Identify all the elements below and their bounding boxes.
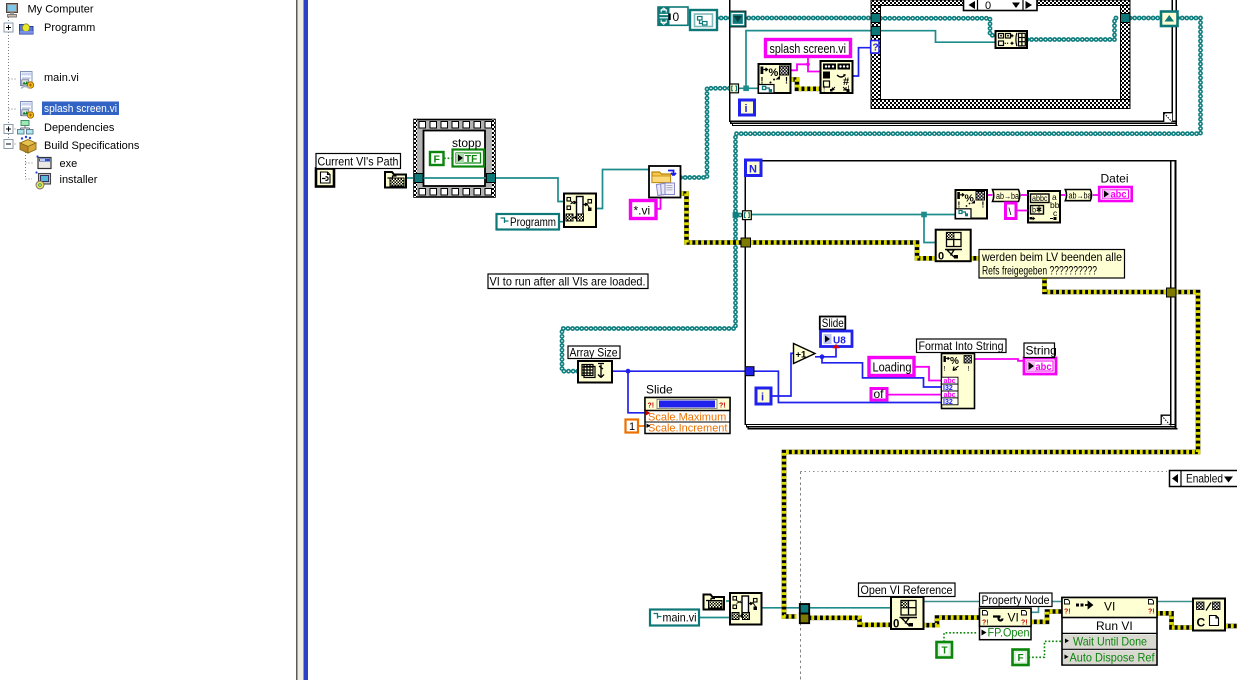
bool constant F (bottom) (1013, 650, 1029, 666)
wire: string backslash const to match pattern (1016, 210, 1028, 212)
wire: built path to open vi reference (762, 607, 892, 609)
svg-text:main.vi: main.vi (663, 611, 697, 625)
label Slide (indicator) (820, 316, 846, 330)
svg-text:i: i (761, 392, 764, 404)
svg-text:Programm: Programm (44, 22, 95, 34)
svg-text:*.vi: *.vi (634, 204, 651, 218)
path constant main.vi (650, 610, 699, 626)
format into string node (splash) (759, 64, 791, 93)
svg-text:FP.Open: FP.Open (988, 626, 1030, 640)
match pattern node (1028, 191, 1060, 223)
numeric constant 0 (top) (658, 7, 688, 25)
svg-text:Build Specifications: Build Specifications (44, 140, 140, 152)
wire: path from sequence to strip path node (494, 178, 564, 202)
search 1D array node (splash) (821, 61, 853, 94)
wire: int array size out to tunnel (612, 370, 745, 372)
wire: error inside for loop to index array (751, 243, 936, 259)
dog-ear corner of top structure (1164, 113, 1173, 123)
icon installer (35, 171, 50, 189)
tunnel error (disable border) (800, 614, 809, 624)
outer stacked-sequence structure (top) (729, 0, 1178, 126)
svg-text:TF: TF (465, 154, 477, 165)
wire: VI refnum array main run (teal circle chain) (562, 18, 1201, 371)
invoke node Run VI (1062, 598, 1157, 666)
junction dot (626, 369, 631, 374)
svg-text:My Computer: My Computer (28, 4, 94, 16)
wire: int +1 out to U8 slide indicator (815, 347, 836, 357)
svg-text:!: ! (785, 76, 788, 86)
svg-text:Open VI Reference: Open VI Reference (861, 583, 953, 597)
string indicator String (1024, 358, 1056, 374)
bool local variable TF stopp (453, 150, 485, 167)
wire: path scalar current vi's path through sequence (407, 177, 417, 179)
wire: error from index array under comment (971, 256, 981, 261)
string constant splash screen.vi (766, 40, 851, 57)
svg-text:T: T (942, 646, 948, 657)
svg-text:?!: ?! (1064, 609, 1071, 616)
tunnel int (for loop left) (745, 367, 754, 376)
splitter divider (296, 0, 308, 680)
svg-text:Format Into String: Format Into String (919, 339, 1004, 353)
label VI to run after all VIs are loaded. (488, 274, 648, 289)
wire: string match to reverse 2 (1060, 194, 1066, 196)
svg-text:1: 1 (629, 421, 635, 433)
svg-text:Property Node: Property Node (982, 593, 1050, 607)
wire: error invoke -> close reference (1157, 613, 1193, 627)
wire: error property node -> invoke node (1031, 612, 1062, 622)
junction inside for loop (921, 212, 927, 218)
tunnel path (disable border) (800, 604, 809, 614)
strip path node (564, 194, 596, 228)
junction dot (820, 354, 825, 359)
svg-text:Slide: Slide (646, 383, 673, 397)
wire: error out of close reference (1225, 624, 1237, 629)
icon My Computer (7, 4, 18, 18)
wire: error below comment to right tunnel (1045, 278, 1168, 293)
wire: indexed path inside for loop (752, 214, 956, 216)
wire: path inside case to build array (881, 31, 996, 43)
svg-text:!: ! (958, 200, 961, 210)
wire: folder icon to build path (bottom) (726, 600, 730, 602)
for loop structure (N) (745, 161, 1178, 430)
U8 indicator Slide (821, 331, 853, 348)
wire: error format node -> search node (splash) (791, 80, 821, 89)
reverse string node 1 (ab-ba) (993, 190, 1020, 202)
string indicator Datei (1099, 187, 1132, 201)
svg-text:?!: ?! (648, 403, 655, 410)
svg-text:ab→ba: ab→ba (996, 191, 1019, 201)
shift register down (left) (730, 11, 747, 27)
N count terminal (746, 160, 762, 176)
auto-index tunnel [] (for loop) (743, 211, 752, 220)
wire: path branch to index array (924, 215, 936, 243)
label Current VI's Path (316, 154, 401, 169)
index array node (in for loop) (936, 230, 971, 263)
vi class refnum constant (690, 10, 717, 30)
svg-text:N: N (749, 164, 757, 176)
wire: error long path around to disable structure (784, 292, 1198, 617)
wire: bool T to FP.Open (944, 633, 977, 642)
icon splash screen.vi (21, 102, 34, 119)
disable structure selector label Enabled (1170, 471, 1237, 487)
svg-text:\: \ (1009, 207, 1012, 218)
label String (1024, 343, 1057, 358)
property node VI FP.Open (980, 608, 1032, 640)
string constant Loading (869, 358, 914, 376)
wire: int N tunnel to format string total (754, 371, 942, 402)
svg-text:Array Size: Array Size (570, 346, 618, 360)
svg-text:Dependencies: Dependencies (44, 122, 115, 134)
tunnel sequence right (487, 174, 496, 183)
expander + Programm (4, 23, 13, 32)
svg-text:Datei: Datei (1101, 172, 1129, 186)
case structure (checkered border) (871, 0, 1130, 109)
label Format Into String (917, 339, 1007, 353)
build path node (730, 593, 762, 625)
tunnel case left 2 (871, 27, 881, 36)
svg-text:stopp: stopp (452, 136, 482, 150)
icon exe (36, 155, 51, 168)
svg-text:splash screen.vi: splash screen.vi (44, 103, 117, 115)
wire: stripped path to folder list node (596, 170, 649, 209)
wire: path branch up into case structure (746, 31, 871, 89)
wire: path inside top structure to format node (738, 87, 759, 89)
format into string node (expanded, for loop) (942, 354, 975, 409)
wire: vi refnum open->property->invoke (solid teal) (924, 602, 1194, 613)
icon Dependencies (18, 121, 34, 135)
wire: path inside flat sequence (423, 177, 488, 179)
wire: string *.vi to folder list (656, 198, 661, 209)
wire: string Loading to format into string (914, 367, 942, 381)
icon Build Specifications (20, 136, 36, 153)
svg-text:%: % (769, 67, 779, 79)
tunnel sequence left (414, 174, 423, 183)
expander - Build Specifications (4, 140, 13, 149)
wire: string format output to String indicator (975, 359, 1025, 361)
flat sequence structure (film strip) (414, 120, 495, 198)
case selector terminal ? (871, 41, 879, 54)
svg-text:Loading: Loading (873, 361, 912, 375)
svg-text:0: 0 (893, 619, 899, 631)
project tree panel (4, 4, 140, 190)
label Property Node (980, 593, 1053, 607)
svg-text:Programm: Programm (510, 217, 556, 229)
wire: string path-to-string to reverse (987, 194, 993, 196)
wire: error tunnel to open vi reference (806, 618, 892, 625)
expander + Dependencies (4, 125, 13, 134)
label Array Size (568, 346, 620, 360)
svg-text:0: 0 (985, 0, 991, 12)
wire: string reverse 2 to Datei indicator (1093, 194, 1099, 196)
svg-text:String: String (1026, 344, 1057, 358)
close reference node (1193, 599, 1225, 631)
ghost icon below main.vi (21, 87, 30, 89)
svg-text:splash screen.vi: splash screen.vi (770, 42, 847, 56)
svg-text:Slide: Slide (822, 316, 844, 330)
wire: bool F to Wait Until Done (1029, 641, 1063, 657)
bool constant T (937, 642, 953, 658)
svg-text:?!: ?! (719, 403, 726, 410)
svg-text:0: 0 (673, 10, 680, 24)
folder icon node (bottom) (704, 595, 725, 610)
svg-text:F: F (1018, 653, 1024, 664)
junction node on array wire (733, 212, 739, 218)
svg-text:0: 0 (938, 251, 944, 263)
svg-text:ab→ba: ab→ba (1069, 191, 1092, 201)
string constant backslash (1006, 203, 1017, 219)
svg-text:of: of (874, 387, 885, 401)
svg-text:VI to run after all VIs are lo: VI to run after all VIs are loaded. (490, 275, 646, 289)
wire: string splash screen.vi to nodes (791, 56, 821, 71)
folder icon node (current vi's path fn) (385, 172, 406, 188)
increment node +1 (794, 344, 816, 364)
svg-text:abc: abc (1036, 362, 1052, 373)
wire: string reverse to match pattern (1021, 194, 1028, 196)
string constant *.vi (631, 201, 657, 219)
svg-text:werden beim LV beenden alle: werden beim LV beenden alle (981, 250, 1122, 264)
wire: bool F to TF local (sequence) (444, 157, 453, 159)
svg-text:Auto Dispose Ref: Auto Dispose Ref (1070, 651, 1156, 665)
svg-text:C: C (1197, 616, 1206, 630)
svg-text:?!: ?! (1148, 609, 1155, 616)
svg-text:U8: U8 (833, 336, 846, 347)
svg-text:+1: +1 (796, 350, 808, 361)
iteration terminal i (top structure) (740, 100, 755, 115)
path to string node (in for loop) (956, 190, 988, 219)
tree dotted guide lines (9, 17, 35, 179)
reverse string node 2 (ab-ba) (1065, 190, 1091, 201)
wire: int search result to case selector (853, 48, 872, 76)
dog-ear corner of for loop (1161, 415, 1170, 425)
tunnel case right (1121, 14, 1131, 23)
comment label werden beim LV (979, 250, 1125, 279)
svg-text:%: % (950, 356, 959, 367)
wire: main.vi constant to build path (699, 617, 730, 619)
svg-text:b✱: b✱ (1032, 205, 1042, 215)
string constant of (871, 387, 887, 401)
wire: error open vi ref -> property node (924, 618, 981, 626)
build array node (in case) (996, 31, 1028, 48)
svg-text:VI: VI (1104, 600, 1115, 614)
wire: int +1 branch to format string current (822, 357, 942, 387)
tunnel case left 1 (871, 14, 881, 23)
svg-text:VI: VI (1008, 611, 1019, 625)
shift register up (right) (1161, 12, 1178, 27)
junction on path wire (743, 86, 749, 92)
iteration terminal i (for loop) (756, 388, 771, 404)
wire: int branch to property node Scale.Maximum (628, 371, 645, 413)
svg-text:abc: abc (1111, 190, 1127, 201)
svg-text:!: ! (982, 200, 985, 210)
vi path icon node (current vi's path) (316, 169, 334, 187)
svg-text:installer: installer (60, 174, 98, 186)
wire: error cluster folder list -> for loop (681, 194, 742, 243)
array size node (578, 361, 612, 383)
svg-text:!: ! (968, 364, 970, 373)
svg-text:I32: I32 (943, 399, 953, 406)
svg-text:main.vi: main.vi (44, 72, 79, 84)
wire: orange 1 const to Scale.Increment (638, 425, 645, 427)
svg-text:Scale.Increment: Scale.Increment (648, 423, 727, 435)
property node Slide (scale) (645, 398, 730, 435)
tunnel error (for loop left) (741, 238, 751, 247)
case selector label "0" (964, 0, 1038, 12)
diagram disable structure (dotted border) (801, 472, 1170, 680)
svg-text:Current VI's Path: Current VI's Path (318, 155, 399, 169)
svg-text:abbc: abbc (1032, 193, 1048, 203)
svg-text:!: ! (823, 85, 825, 94)
path constant Programm (497, 214, 560, 230)
svg-text:Enabled: Enabled (1186, 472, 1223, 486)
numeric constant 1 (orange) (626, 420, 639, 434)
folder list node (649, 166, 681, 198)
svg-text:Run VI: Run VI (1096, 619, 1133, 633)
wire: Programm path constant to strip path node (559, 221, 564, 223)
bool constant F (sequence) (430, 152, 444, 166)
icon main.vi (21, 72, 34, 89)
selection highlight splash screen.vi (42, 102, 119, 116)
auto-index tunnel [] (top structure) (730, 84, 739, 93)
label Open VI Reference (859, 583, 956, 597)
open vi reference node (891, 597, 924, 631)
svg-text:F: F (434, 154, 441, 166)
icon Programm folder (20, 24, 34, 34)
tunnel error (for loop right) (1167, 288, 1177, 297)
svg-text:Wait Until Done: Wait Until Done (1073, 635, 1147, 649)
svg-text:i: i (745, 103, 748, 115)
wire: string of to format into string (887, 394, 942, 396)
svg-text:?: ? (873, 43, 879, 54)
wire: path array from folder list into [] tunnel (681, 88, 744, 215)
svg-text:!: ! (944, 364, 946, 373)
svg-text:Refs freigegeben ??????????: Refs freigegeben ?????????? (982, 264, 1097, 278)
wire: int i terminal to +1 (771, 353, 794, 396)
svg-text:exe: exe (60, 158, 78, 170)
